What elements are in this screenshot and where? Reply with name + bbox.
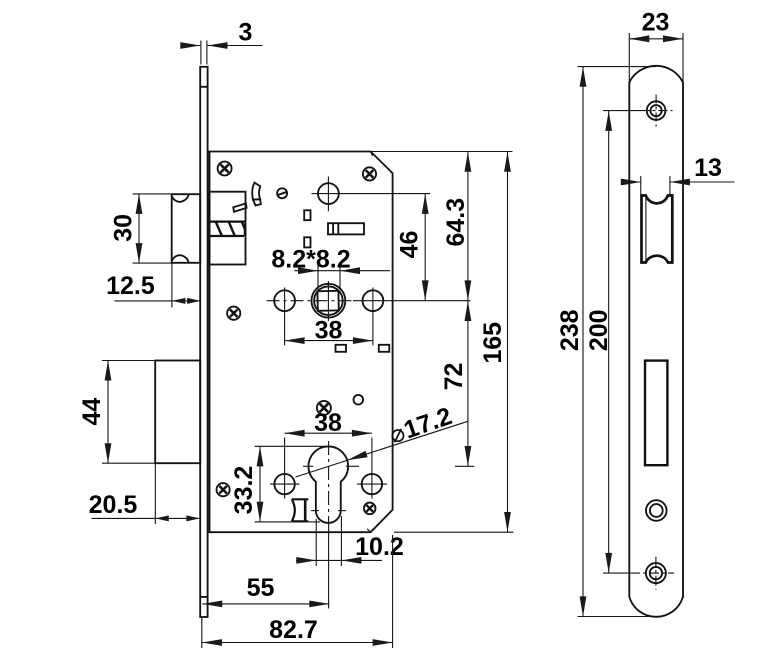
centerline extension to 46 64.3 dims (353, 300, 470, 302)
svg-text:20.5: 20.5 (89, 491, 138, 519)
stem arc center ticks right (338, 510, 346, 512)
hole left of spindle (274, 290, 295, 311)
dim 12.5 latch protrusion (106, 264, 201, 308)
deadbolt (155, 361, 200, 464)
dim 8.2x8.2 spindle square (271, 245, 390, 289)
dim 10.2 stem width (296, 533, 404, 564)
keyway clip right bar (304, 499, 307, 521)
stem arc center ticks left (311, 510, 319, 512)
leader diameter 17.2 (296, 402, 468, 477)
handle hub circle (318, 183, 339, 204)
svg-text:55: 55 (247, 574, 275, 602)
dim 20.5 deadbolt protrusion (89, 464, 200, 525)
lower hole right h centerline (357, 483, 387, 485)
slider rect (328, 223, 364, 234)
spring coil 1 (215, 221, 222, 237)
cylinder fixing hole inner (650, 504, 663, 517)
dim 23 plate width (629, 8, 683, 83)
LEFT VIEW GROUP (155, 67, 470, 617)
cylinder horizontal centerline right dash (346, 465, 359, 467)
screw mid-left (227, 307, 240, 320)
keyway clip top bar (292, 498, 309, 500)
faceplate seam bottom (200, 596, 207, 598)
top screw h centerline (641, 110, 673, 112)
spindle square 8.2x8.2 (317, 291, 338, 311)
deadbolt cutout (645, 361, 667, 466)
dim 200 screw spacing (585, 111, 640, 573)
bottom screw v centerline (655, 557, 657, 590)
lock body outline with chamfered right corners (208, 152, 393, 533)
svg-text:10.2: 10.2 (355, 533, 404, 561)
svg-text:46: 46 (396, 231, 424, 259)
bottom screw hole outer (646, 563, 666, 583)
svg-text:72: 72 (440, 363, 468, 391)
dim 238 plate length (556, 67, 656, 617)
lower hole right (362, 474, 382, 494)
screw lower-left (217, 483, 230, 496)
faceplate front view stadium outline (629, 66, 683, 617)
lower hole right v centerline (371, 438, 373, 499)
latch spring bottom line (210, 235, 245, 237)
lever tilted rect (233, 203, 246, 211)
spring coil 2 (228, 221, 235, 237)
keyway clip left concave edge (292, 499, 295, 521)
dim 55 (202, 574, 329, 607)
top screw v centerline (655, 95, 657, 127)
small rect B (304, 237, 310, 247)
dim 72 (440, 301, 474, 466)
hub horizontal centerline and 46 extension (312, 193, 431, 195)
slot line (278, 192, 287, 195)
svg-text:3: 3 (239, 18, 253, 46)
svg-text:30: 30 (110, 214, 138, 242)
svg-text:8.2*8.2: 8.2*8.2 (271, 245, 350, 273)
small rect A (304, 210, 310, 220)
faceplate seam top (200, 86, 207, 88)
lower hole left h centerline (270, 483, 300, 485)
svg-text:165: 165 (479, 322, 507, 364)
bottom screw h centerline (630, 572, 674, 574)
euro cylinder profile (308, 446, 348, 523)
dim 64.3 (442, 152, 471, 301)
cylinder horizontal centerline left dash (303, 465, 313, 467)
small circle with slot (277, 188, 287, 198)
svg-text:238: 238 (556, 309, 584, 351)
dim 165 (371, 152, 514, 533)
latch bevel arc top (172, 194, 189, 201)
screw above cylinder (317, 401, 331, 415)
spring coil 3 (241, 221, 245, 231)
cylinder fixing hole outer (646, 500, 667, 521)
dim 82.7 (202, 535, 393, 648)
faceplate side view (200, 67, 207, 617)
right hole vertical centerline (372, 288, 374, 346)
dim 38 lower holes (285, 409, 372, 437)
cylinder vertical centerline (328, 441, 330, 530)
cam crescent foot (253, 199, 261, 205)
dim 33.2 cylinder profile height (230, 446, 326, 522)
svg-text:64.3: 64.3 (442, 198, 470, 247)
latch spring top line (210, 220, 246, 222)
chamfer serif bottom (390, 510, 393, 513)
slider divider 2 (337, 223, 339, 234)
dim 38 spindle row (285, 317, 373, 345)
svg-text:33.2: 33.2 (230, 466, 258, 515)
top screw hole inner (651, 105, 662, 116)
latch cutout with concave ends (642, 196, 673, 263)
dim 46 (396, 194, 429, 301)
cylinder v centerline solid to 55 dim (328, 530, 330, 609)
left hole vertical centerline (284, 288, 286, 346)
svg-text:82.7: 82.7 (269, 616, 318, 644)
screw lower-right (364, 503, 376, 515)
10.2 extension line left (315, 519, 317, 566)
lower hole left v centerline (284, 438, 286, 499)
dim 3 faceplate thickness (180, 18, 262, 64)
spring end bar (244, 224, 246, 237)
svg-text:38: 38 (315, 317, 343, 345)
svg-text:23: 23 (642, 8, 670, 36)
small circle near cylinder (354, 395, 364, 405)
screw top-left (218, 162, 232, 176)
dim 44 deadbolt height (78, 361, 155, 464)
keyway clip bottom bar (292, 520, 309, 522)
svg-text:38: 38 (314, 409, 342, 437)
latch cutout inner thin line (645, 198, 647, 261)
svg-text:44: 44 (78, 398, 106, 426)
screw top-right (363, 167, 376, 180)
bottom screw hole inner (650, 567, 662, 579)
10.2 extension line right (340, 516, 342, 566)
top screw hole outer (647, 101, 666, 120)
small rect D (379, 345, 390, 352)
svg-text:12.5: 12.5 (106, 272, 155, 300)
latch bolt head (172, 194, 201, 263)
spindle hub inner circle (314, 286, 343, 315)
dim 30 latch height (110, 194, 172, 263)
svg-text:200: 200 (585, 309, 613, 351)
small rect C (336, 345, 347, 352)
spindle vertical centerline (327, 281, 329, 321)
hub vertical centerline (327, 177, 329, 212)
lower hole left (274, 474, 294, 494)
hole right of spindle (363, 290, 384, 311)
svg-text:13: 13 (694, 154, 722, 182)
spindle hub outer circle (312, 284, 346, 318)
RIGHT VIEW GROUP (629, 66, 683, 617)
dim 13 latch cutout width (621, 154, 735, 197)
horizontal centerline through spindle row dashed (267, 300, 354, 302)
chamfer serif top (371, 152, 373, 157)
latch box inside body (210, 192, 246, 265)
slider divider 1 (332, 223, 334, 234)
chamfer serif bottom2 (367, 529, 370, 532)
cam crescent band (252, 183, 260, 200)
latch bevel arc bottom (172, 255, 189, 262)
